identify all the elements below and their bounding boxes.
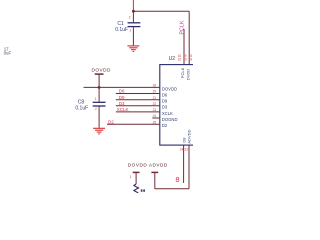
reference text (cut off at bottom edge) (141, 189, 143, 191)
wire (PCLK stub to U2 top pin) (183, 29, 185, 65)
svg-text:XCLK: XCLK (117, 107, 129, 112)
wire (C1 top lead) (132, 11, 134, 22)
svg-text:U2: U2 (169, 56, 176, 62)
svg-text:23: 23 (153, 108, 157, 112)
svg-text:1: 1 (129, 29, 131, 33)
svg-text:9: 9 (185, 58, 187, 62)
svg-text:2: 2 (95, 107, 97, 111)
pin numbers (left pins of U2, tiny red) (153, 84, 157, 125)
svg-text:0uF: 0uF (4, 51, 12, 56)
svg-text:PCLK: PCLK (180, 67, 185, 78)
pin stub (U2 bottom pin, ADVDD) (188, 145, 190, 189)
svg-text:D6: D6 (162, 92, 168, 97)
ground (under C8) (93, 128, 105, 134)
svg-text:22: 22 (153, 102, 157, 106)
svg-text:0.1uF: 0.1uF (75, 105, 88, 111)
wire (vertical drop to U2 top pin) (188, 11, 190, 64)
svg-text:PCLK: PCLK (180, 20, 186, 34)
wire (C8 top lead) (98, 87, 100, 101)
svg-text:D3: D3 (119, 101, 125, 106)
capacitor C1 (128, 23, 141, 27)
svg-text:DOGND: DOGND (162, 117, 178, 122)
svg-text:DOVDD: DOVDD (128, 162, 148, 167)
svg-text:8: 8 (175, 175, 179, 184)
svg-text:24: 24 (180, 148, 184, 152)
wire (D6 row) (116, 93, 160, 95)
pin stub (DOGND row) (152, 117, 160, 119)
pin stub (U2 bottom pin, net 8) (183, 145, 185, 183)
wire (XCLK row) (116, 111, 160, 113)
pin numbers (bottom pins of U2, tiny red) (180, 148, 188, 152)
node (junction at C1 top tee) (132, 10, 135, 13)
svg-text:8: 8 (190, 58, 192, 62)
wire (D3 row) (116, 105, 160, 107)
capacitor C8 (93, 102, 106, 106)
svg-text:D2: D2 (108, 119, 114, 124)
pin names (inside U2, left column) (162, 86, 178, 128)
svg-text:10: 10 (178, 58, 182, 62)
svg-text:D2: D2 (162, 123, 168, 128)
wire (C1 bottom lead) (132, 27, 134, 45)
svg-text:1: 1 (130, 175, 132, 179)
svg-text:ADVDD: ADVDD (149, 162, 168, 167)
wire (D9 row) (116, 99, 160, 101)
svg-text:D9: D9 (119, 95, 125, 100)
resistor R? (zigzag, cut off at bottom) (134, 184, 138, 193)
node (junction DOVDD / C8 / pin row) (98, 86, 101, 89)
op IC U2 body (camera sensor, right edge cut off) (160, 65, 197, 146)
wire (C8 bottom lead) (98, 107, 100, 128)
svg-text:DOVDD: DOVDD (92, 67, 112, 72)
pin numbers (top pins of U2, tiny red) (178, 54, 193, 61)
svg-text:1: 1 (138, 186, 140, 190)
svg-text:XCLK: XCLK (162, 111, 173, 116)
svg-text:DOVDD: DOVDD (162, 86, 177, 91)
svg-text:1: 1 (95, 97, 97, 101)
svg-text:DVDD: DVDD (186, 69, 191, 80)
ground (under C1) (127, 46, 139, 52)
svg-text:D9: D9 (162, 99, 168, 104)
wire (D2 row) (107, 123, 160, 125)
svg-text:26: 26 (153, 84, 157, 88)
svg-text:D6: D6 (119, 89, 125, 94)
svg-text:ADVDD: ADVDD (187, 129, 192, 143)
wire (horizontal run to DVDD pin) (133, 10, 189, 12)
svg-text:D3: D3 (162, 105, 168, 110)
wire (DOVDD pin row 1) (84, 86, 160, 88)
svg-text:0.1uF: 0.1uF (115, 27, 128, 33)
svg-text:25: 25 (153, 120, 157, 124)
svg-text:2: 2 (129, 16, 131, 20)
svg-text:20: 20 (153, 90, 157, 94)
svg-text:24: 24 (153, 114, 157, 118)
wire (red net segment entering from top) (132, 0, 134, 11)
svg-text:23: 23 (184, 148, 188, 152)
svg-text:21: 21 (153, 96, 157, 100)
wire (ADVDD run to U2 bottom pin) (155, 188, 189, 190)
